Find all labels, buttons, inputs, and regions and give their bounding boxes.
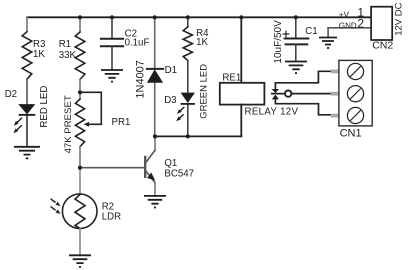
svg-text:10uF/50V: 10uF/50V [273, 20, 284, 64]
svg-text:D1: D1 [165, 65, 177, 76]
svg-text:C1: C1 [305, 26, 317, 37]
svg-text:1K: 1K [196, 37, 208, 48]
svg-text:1N4007: 1N4007 [135, 60, 147, 99]
svg-text:2: 2 [357, 17, 364, 31]
svg-text:12V DC: 12V DC [394, 2, 405, 35]
svg-text:PR1: PR1 [112, 117, 131, 128]
svg-text:CN1: CN1 [340, 128, 362, 140]
svg-text:33K: 33K [59, 50, 77, 61]
svg-text:RE1: RE1 [222, 73, 241, 84]
svg-text:R1: R1 [59, 39, 71, 50]
svg-text:+V: +V [339, 10, 350, 19]
svg-text:47K PRESET: 47K PRESET [63, 95, 74, 153]
svg-text:1K: 1K [33, 49, 45, 60]
svg-text:CN2: CN2 [372, 40, 393, 52]
svg-text:GND: GND [339, 22, 357, 31]
svg-text:D2: D2 [5, 89, 17, 100]
svg-text:LDR: LDR [102, 212, 121, 223]
svg-text:RELAY 12V: RELAY 12V [245, 106, 299, 117]
svg-text:GREEN LED: GREEN LED [199, 64, 210, 119]
svg-text:Q1: Q1 [164, 158, 177, 169]
svg-text:RED LED: RED LED [39, 86, 50, 128]
svg-text:0.1uF: 0.1uF [125, 38, 150, 49]
svg-text:BC547: BC547 [164, 169, 194, 180]
svg-text:D3: D3 [164, 95, 176, 106]
